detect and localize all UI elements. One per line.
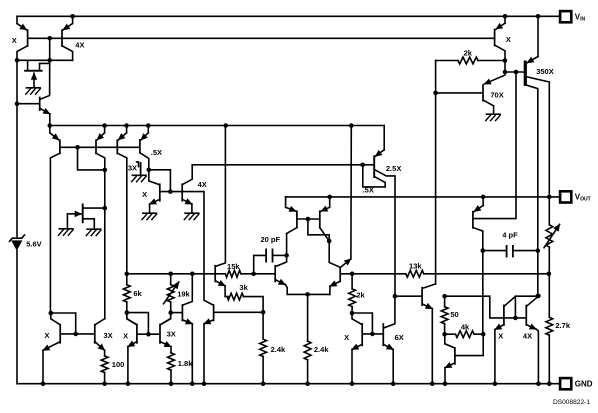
- svg-text:1.8k: 1.8k: [178, 359, 193, 368]
- svg-text:DS008822-1: DS008822-1: [553, 399, 590, 406]
- svg-text:20 pF: 20 pF: [261, 235, 281, 244]
- svg-text:4X: 4X: [523, 331, 532, 340]
- svg-text:15k: 15k: [227, 262, 240, 271]
- svg-text:2.4k: 2.4k: [314, 345, 329, 354]
- svg-text:5.6V: 5.6V: [26, 240, 41, 249]
- svg-text:2.5X: 2.5X: [386, 164, 401, 173]
- svg-text:100: 100: [112, 360, 125, 369]
- svg-text:2k: 2k: [464, 48, 473, 57]
- svg-text:.3X: .3X: [126, 164, 137, 173]
- svg-text:X: X: [44, 331, 49, 340]
- svg-text:X: X: [142, 190, 147, 199]
- svg-text:2.7k: 2.7k: [555, 321, 570, 330]
- svg-text:X: X: [123, 332, 128, 341]
- svg-text:4 pF: 4 pF: [502, 230, 518, 239]
- svg-text:X: X: [344, 333, 349, 342]
- svg-text:X: X: [506, 35, 511, 44]
- svg-text:19k: 19k: [177, 290, 190, 299]
- svg-text:50: 50: [450, 310, 458, 319]
- svg-text:350X: 350X: [536, 67, 554, 76]
- svg-text:4k: 4k: [461, 323, 470, 332]
- svg-text:4X: 4X: [198, 180, 207, 189]
- svg-text:2.4k: 2.4k: [271, 345, 286, 354]
- svg-text:4X: 4X: [75, 40, 84, 49]
- svg-text:13k: 13k: [409, 262, 422, 271]
- svg-text:6X: 6X: [395, 333, 404, 342]
- svg-text:GND: GND: [575, 379, 593, 388]
- svg-text:X: X: [498, 331, 503, 340]
- svg-text:6k: 6k: [133, 289, 142, 298]
- svg-text:.5X: .5X: [151, 148, 162, 157]
- svg-text:2k: 2k: [356, 290, 365, 299]
- svg-text:3k: 3k: [239, 283, 248, 292]
- svg-text:3X: 3X: [167, 330, 176, 339]
- svg-text:70X: 70X: [490, 91, 503, 100]
- svg-text:.5X: .5X: [363, 185, 374, 194]
- svg-text:X: X: [12, 36, 17, 45]
- svg-text:3X: 3X: [104, 331, 113, 340]
